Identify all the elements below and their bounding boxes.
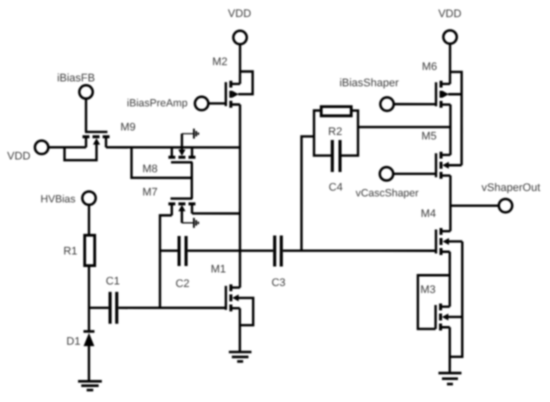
wire node to C2 — [160, 249, 178, 251]
wire M7 drain to rail — [192, 212, 240, 214]
wire M9 drain to rail — [106, 146, 240, 148]
svg-text:M8: M8 — [142, 163, 157, 175]
svg-text:C3: C3 — [271, 277, 285, 289]
wire M5 source to M4 drain — [449, 176, 451, 232]
terminal vCascShaper — [356, 167, 420, 199]
capacitor C2 — [175, 236, 189, 290]
wire M4 bulk rail — [450, 241, 463, 356]
wire vCascShaper to M5 gate — [393, 173, 436, 175]
transistor M6 — [422, 61, 462, 108]
wire VDD to M6 drain — [449, 44, 451, 84]
node VDD (feedback) terminal — [7, 141, 48, 163]
svg-text:iBiasShaper: iBiasShaper — [339, 77, 399, 89]
node VDD (shaper supply) terminal — [438, 8, 461, 44]
wire M4 source to M3 drain — [449, 252, 451, 307]
svg-text:C1: C1 — [106, 276, 120, 288]
terminal vShaperOut — [482, 182, 541, 212]
wire iBiasPreAmp to M2 gate — [208, 102, 226, 104]
bulk tie symbol (M8) — [182, 129, 198, 139]
bulk tie symbol (M7) — [182, 218, 198, 228]
wire VDD to M9 source — [48, 146, 86, 148]
svg-text:M2: M2 — [212, 56, 227, 68]
svg-text:M7: M7 — [142, 187, 157, 199]
svg-text:iBiasPreAmp: iBiasPreAmp — [127, 97, 188, 109]
svg-text:M9: M9 — [120, 121, 135, 133]
wire R1 node to C1 — [89, 307, 109, 309]
wire iBiasShaper to M6 gate — [394, 103, 436, 105]
wire M6 source to M5 drain — [449, 105, 451, 155]
svg-text:vShaperOut: vShaperOut — [482, 182, 541, 194]
svg-text:C2: C2 — [175, 278, 189, 290]
diode D1 — [66, 331, 94, 347]
wire M8 gate tie loop — [132, 147, 192, 178]
wire C1 to M1 gate — [118, 307, 225, 309]
ground (M1 source) — [229, 352, 252, 361]
capacitor C4 — [329, 140, 343, 194]
wire shaper input branch — [301, 136, 314, 250]
wire R2C4 to M5/M6 node — [358, 126, 450, 128]
resistor R2 — [321, 107, 351, 138]
wire D1 to ground — [88, 345, 90, 381]
svg-text:vCascShaper: vCascShaper — [356, 187, 420, 199]
capacitor C1 — [106, 276, 120, 324]
transistor M8 — [142, 134, 195, 176]
node VDD (preamp supply) terminal — [228, 8, 251, 44]
transistor M9 — [65, 121, 136, 160]
terminal iBiasShaper — [339, 77, 399, 111]
svg-text:M1: M1 — [211, 263, 226, 275]
svg-text:M4: M4 — [421, 208, 436, 220]
ground (detector) — [78, 381, 102, 390]
wire M6 bulk rail — [450, 72, 462, 165]
wire rail M2 source to M1 drain — [239, 104, 241, 287]
terminal iBiasFB — [57, 72, 95, 98]
svg-text:iBiasFB: iBiasFB — [57, 72, 95, 84]
transistor M1 — [211, 263, 253, 325]
svg-text:M3: M3 — [420, 284, 435, 296]
wire M3 gate tie loop — [418, 275, 450, 329]
transistor M5 — [421, 131, 461, 179]
svg-text:R1: R1 — [63, 245, 77, 257]
svg-text:C4: C4 — [329, 182, 343, 194]
wire C2 to C3 — [188, 249, 274, 251]
svg-text:D1: D1 — [66, 336, 80, 348]
wire M8 gate to M7 gate — [191, 162, 193, 198]
wire output node — [450, 204, 498, 206]
svg-text:VDD: VDD — [7, 151, 30, 163]
wire R2 C4 loop — [314, 111, 358, 156]
svg-text:M5: M5 — [421, 131, 436, 143]
capacitor C3 — [271, 235, 285, 289]
transistor M2 — [212, 56, 252, 108]
wire iBiasFB to M9 gate — [85, 98, 87, 131]
transistor M3 — [420, 284, 462, 330]
wire M7 source to C1/C2 node — [160, 215, 172, 308]
svg-text:HVBias: HVBias — [40, 193, 75, 205]
wire VDD to M2 drain — [239, 44, 241, 84]
svg-text:M6: M6 — [422, 61, 437, 73]
resistor R1 — [63, 235, 94, 265]
wire M3 source to ground — [449, 327, 451, 373]
terminal HVBias — [40, 191, 95, 205]
terminal iBiasPreAmp — [127, 97, 208, 110]
svg-text:VDD: VDD — [438, 8, 461, 20]
svg-text:R2: R2 — [328, 126, 342, 138]
wire M1 source to ground — [239, 308, 241, 352]
wire C3 to M4 gate — [283, 250, 436, 252]
transistor M4 — [421, 208, 463, 255]
transistor M7 — [142, 187, 195, 223]
svg-text:VDD: VDD — [228, 8, 251, 20]
wire R1 to D1 — [88, 266, 90, 331]
wire HVBias to R1 — [88, 205, 90, 236]
ground (shaper) — [438, 373, 461, 384]
